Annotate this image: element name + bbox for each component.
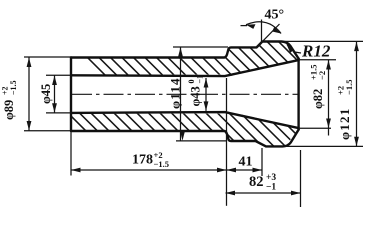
label phi114 — [168, 77, 183, 109]
phi114 bottom arrow — [180, 131, 185, 141]
svg-text:φ45: φ45 — [39, 84, 53, 104]
82 dim line — [226, 192, 301, 194]
phi114 ext top — [173, 46, 228, 48]
45 arc right arrow — [272, 27, 281, 34]
82 right arrow — [291, 191, 301, 196]
phi114 ext bottom — [176, 140, 227, 142]
arrowheads — [27, 24, 359, 195]
hatching top wall — [60, 30, 350, 90]
41 right arrow — [253, 168, 263, 173]
label phi121 — [336, 80, 355, 140]
label phi89 — [1, 80, 19, 120]
phi45 dim line — [54, 76, 56, 113]
svg-text:45°: 45° — [265, 8, 285, 23]
left face — [70, 58, 72, 132]
phi89 ext top — [24, 56, 71, 58]
R12 arrow — [286, 44, 294, 53]
svg-text:+3: +3 — [266, 173, 276, 183]
svg-text:−1: −1 — [196, 75, 205, 84]
phi121 ext bottom — [284, 145, 363, 147]
phi82 top arrow — [326, 60, 331, 70]
phi43 bottom arrow — [204, 101, 209, 111]
phi89 dim line — [28, 58, 30, 131]
svg-text:−1.5: −1.5 — [154, 159, 169, 169]
phi82 bottom arrow — [326, 119, 331, 129]
label phi45 — [39, 84, 53, 104]
right face — [297, 59, 299, 130]
phi114 dim line — [180, 47, 182, 141]
svg-text:82: 82 — [249, 174, 264, 190]
svg-text:φ89: φ89 — [2, 100, 16, 120]
svg-text:−1.5: −1.5 — [9, 80, 18, 95]
41 dim line — [227, 169, 263, 171]
svg-text:φ114: φ114 — [168, 77, 183, 109]
178 left ext (below part) — [70, 131, 72, 176]
part outline bottom — [71, 130, 299, 147]
phi121 top arrow — [354, 42, 359, 52]
R12 leader — [287, 45, 301, 54]
phi114 top arrow — [178, 47, 183, 57]
178/41 shared ext line — [226, 78, 228, 206]
45deg arc — [246, 22, 281, 34]
svg-text:−2: −2 — [317, 71, 327, 80]
svg-text:φ43: φ43 — [189, 86, 203, 106]
part outline top — [71, 42, 299, 147]
phi45 bottom arrow — [52, 103, 57, 113]
phi121 bottom arrow — [354, 137, 359, 147]
45deg chamfer extension line — [257, 24, 280, 47]
phi89 ext bottom — [24, 130, 71, 132]
label phi43 — [187, 75, 205, 107]
41 right ext — [261, 148, 263, 176]
label phi82 — [309, 65, 328, 109]
45deg arc left tail — [241, 25, 248, 27]
82 right ext — [300, 150, 302, 207]
phi43 dim line — [205, 78, 207, 111]
178 right arrow — [217, 168, 227, 173]
svg-text:41: 41 — [239, 155, 253, 170]
bore bottom line — [71, 112, 299, 128]
svg-text:−1.5: −1.5 — [344, 80, 354, 95]
phi121 ext top — [285, 40, 363, 42]
41 left arrow — [227, 168, 237, 173]
dimension thin lines — [24, 20, 363, 208]
phi82 dim line — [328, 60, 330, 136]
svg-text:φ82: φ82 — [311, 89, 325, 109]
svg-text:φ121: φ121 — [337, 108, 352, 140]
svg-text:R12: R12 — [301, 42, 331, 61]
phi82 ext bottom — [299, 127, 331, 129]
phi45 ext bottom — [46, 112, 71, 114]
178 left arrow — [71, 168, 81, 173]
82 left arrow — [226, 191, 236, 196]
phi45 ext top — [46, 74, 71, 76]
svg-text:−1: −1 — [266, 183, 276, 193]
label 178 — [132, 150, 169, 169]
phi43 top arrow — [204, 78, 209, 88]
hatching bottom wall — [60, 105, 350, 165]
centerline — [72, 93, 298, 95]
phi89 top arrow — [27, 58, 32, 68]
178 dim line — [71, 169, 227, 171]
bore top line — [71, 60, 299, 76]
phi45 top arrow — [52, 76, 57, 86]
phi89 bottom arrow — [27, 121, 32, 131]
svg-text:178: 178 — [132, 153, 153, 168]
45 arc left arrow — [246, 24, 256, 29]
45deg vertical reference line — [261, 20, 263, 42]
phi121 dim line — [356, 42, 358, 147]
phi82 ext top — [299, 59, 336, 61]
label 82 — [249, 173, 276, 193]
